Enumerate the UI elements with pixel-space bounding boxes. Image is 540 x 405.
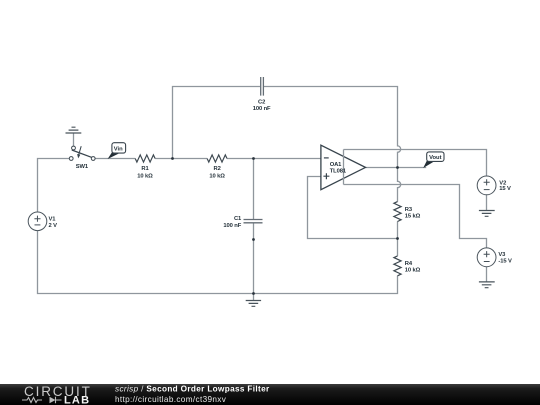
svg-text:OA1: OA1 [330, 162, 342, 168]
svg-text:100 nF: 100 nF [253, 106, 271, 112]
CircuitLab logo text [22, 384, 92, 405]
junction node A (R1/R2/C2) [171, 157, 174, 160]
svg-text:2 V: 2 V [49, 223, 58, 229]
svg-text:V3: V3 [498, 252, 506, 258]
capacitor C1 plates [244, 220, 263, 223]
junction output node [396, 166, 399, 169]
wire: C2 right plate to feedback vertical with hop over V+ rail [264, 87, 401, 168]
wire: V1 bottom pin, bottom ground rail, up to R4 bottom [38, 231, 398, 294]
op-amp minus input sign [324, 157, 329, 159]
wire: C1 bottom plate down to ground rail [253, 223, 255, 293]
flag Vout [423, 152, 444, 168]
wire: node B down to C1 top plate [253, 159, 255, 220]
wire: V3 ground stub [486, 267, 488, 282]
svg-text:R2: R2 [213, 166, 220, 172]
svg-text:-15 V: -15 V [498, 259, 512, 265]
svg-text:Vout: Vout [429, 155, 442, 161]
resistor R2 [207, 155, 227, 162]
ground below V2 [479, 211, 495, 217]
junction divider node R3/R4 [396, 237, 399, 240]
voltage source V3 [477, 248, 496, 267]
wire: output junction down to R3 with hop over V- rail [398, 168, 401, 202]
junction node B (R2/C1/op-amp) [252, 157, 255, 160]
svg-text:V1: V1 [49, 217, 57, 223]
op-amp power pins line [343, 150, 345, 185]
switch SW1 [69, 146, 95, 160]
junction C1 ground tee [252, 292, 255, 295]
svg-text:R3: R3 [405, 207, 413, 213]
capacitor C2 plates [261, 77, 264, 96]
wire: non-inverting input loop to divider junction [308, 177, 398, 239]
svg-text:10 kΩ: 10 kΩ [209, 173, 225, 179]
op-amp OA1 body [321, 145, 366, 190]
svg-text:100 nF: 100 nF [223, 223, 241, 229]
svg-text:TL081: TL081 [330, 169, 347, 175]
voltage source V1 [28, 212, 47, 231]
svg-text:C1: C1 [234, 216, 242, 222]
svg-text:10 kΩ: 10 kΩ [137, 173, 153, 179]
wire: V1 top pin up and over to switch left terminal [38, 159, 70, 213]
wire: switch ground stub [73, 133, 75, 146]
wire: R3 bottom to R4 top through divider junction [397, 222, 399, 256]
wire: switch right terminal to R1 (node Vin) [95, 158, 135, 160]
op-amp plus input sign [323, 173, 329, 179]
resistor R3 [394, 202, 401, 222]
svg-text:scrisp / Second Order Lowpass: scrisp / Second Order Lowpass Filter [115, 385, 270, 394]
svg-text:Vin: Vin [114, 146, 123, 152]
voltage source V2 [477, 176, 496, 195]
svg-text:15 kΩ: 15 kΩ [405, 214, 421, 220]
svg-text:15 V: 15 V [499, 186, 511, 192]
svg-text:R1: R1 [141, 166, 149, 172]
wire: V+ rail from op-amp to V2 [344, 150, 487, 177]
ground below V3 [479, 282, 495, 288]
wire: C1 ground stub [253, 294, 255, 301]
svg-text:10 kΩ: 10 kΩ [405, 268, 421, 274]
svg-text:SW1: SW1 [76, 164, 89, 170]
ground below C1 [246, 301, 261, 307]
wire: node A up and over to C2 left plate [173, 87, 261, 159]
wire: V- rail from op-amp to V3 [344, 185, 487, 249]
svg-text:LAB: LAB [64, 395, 90, 405]
footer bar [0, 384, 540, 405]
wire: R1 to R2 through junction node A [155, 158, 207, 160]
logo waveform glyph [22, 398, 42, 403]
wire: op-amp output to Vout flag [366, 167, 427, 169]
resistor R4 [394, 256, 401, 276]
svg-text:R4: R4 [405, 261, 413, 267]
flag Vin [108, 143, 126, 159]
resistor R1 [135, 155, 155, 162]
svg-text:C2: C2 [258, 100, 265, 106]
junction on C1 bottom wire [252, 238, 255, 241]
wire: R2 to op-amp inverting input (node B) [227, 158, 321, 160]
svg-text:http://circuitlab.com/ct39nxv: http://circuitlab.com/ct39nxv [115, 395, 227, 404]
ground above SW1 (inverted) [66, 127, 82, 133]
wire: V2 ground stub [486, 195, 488, 211]
